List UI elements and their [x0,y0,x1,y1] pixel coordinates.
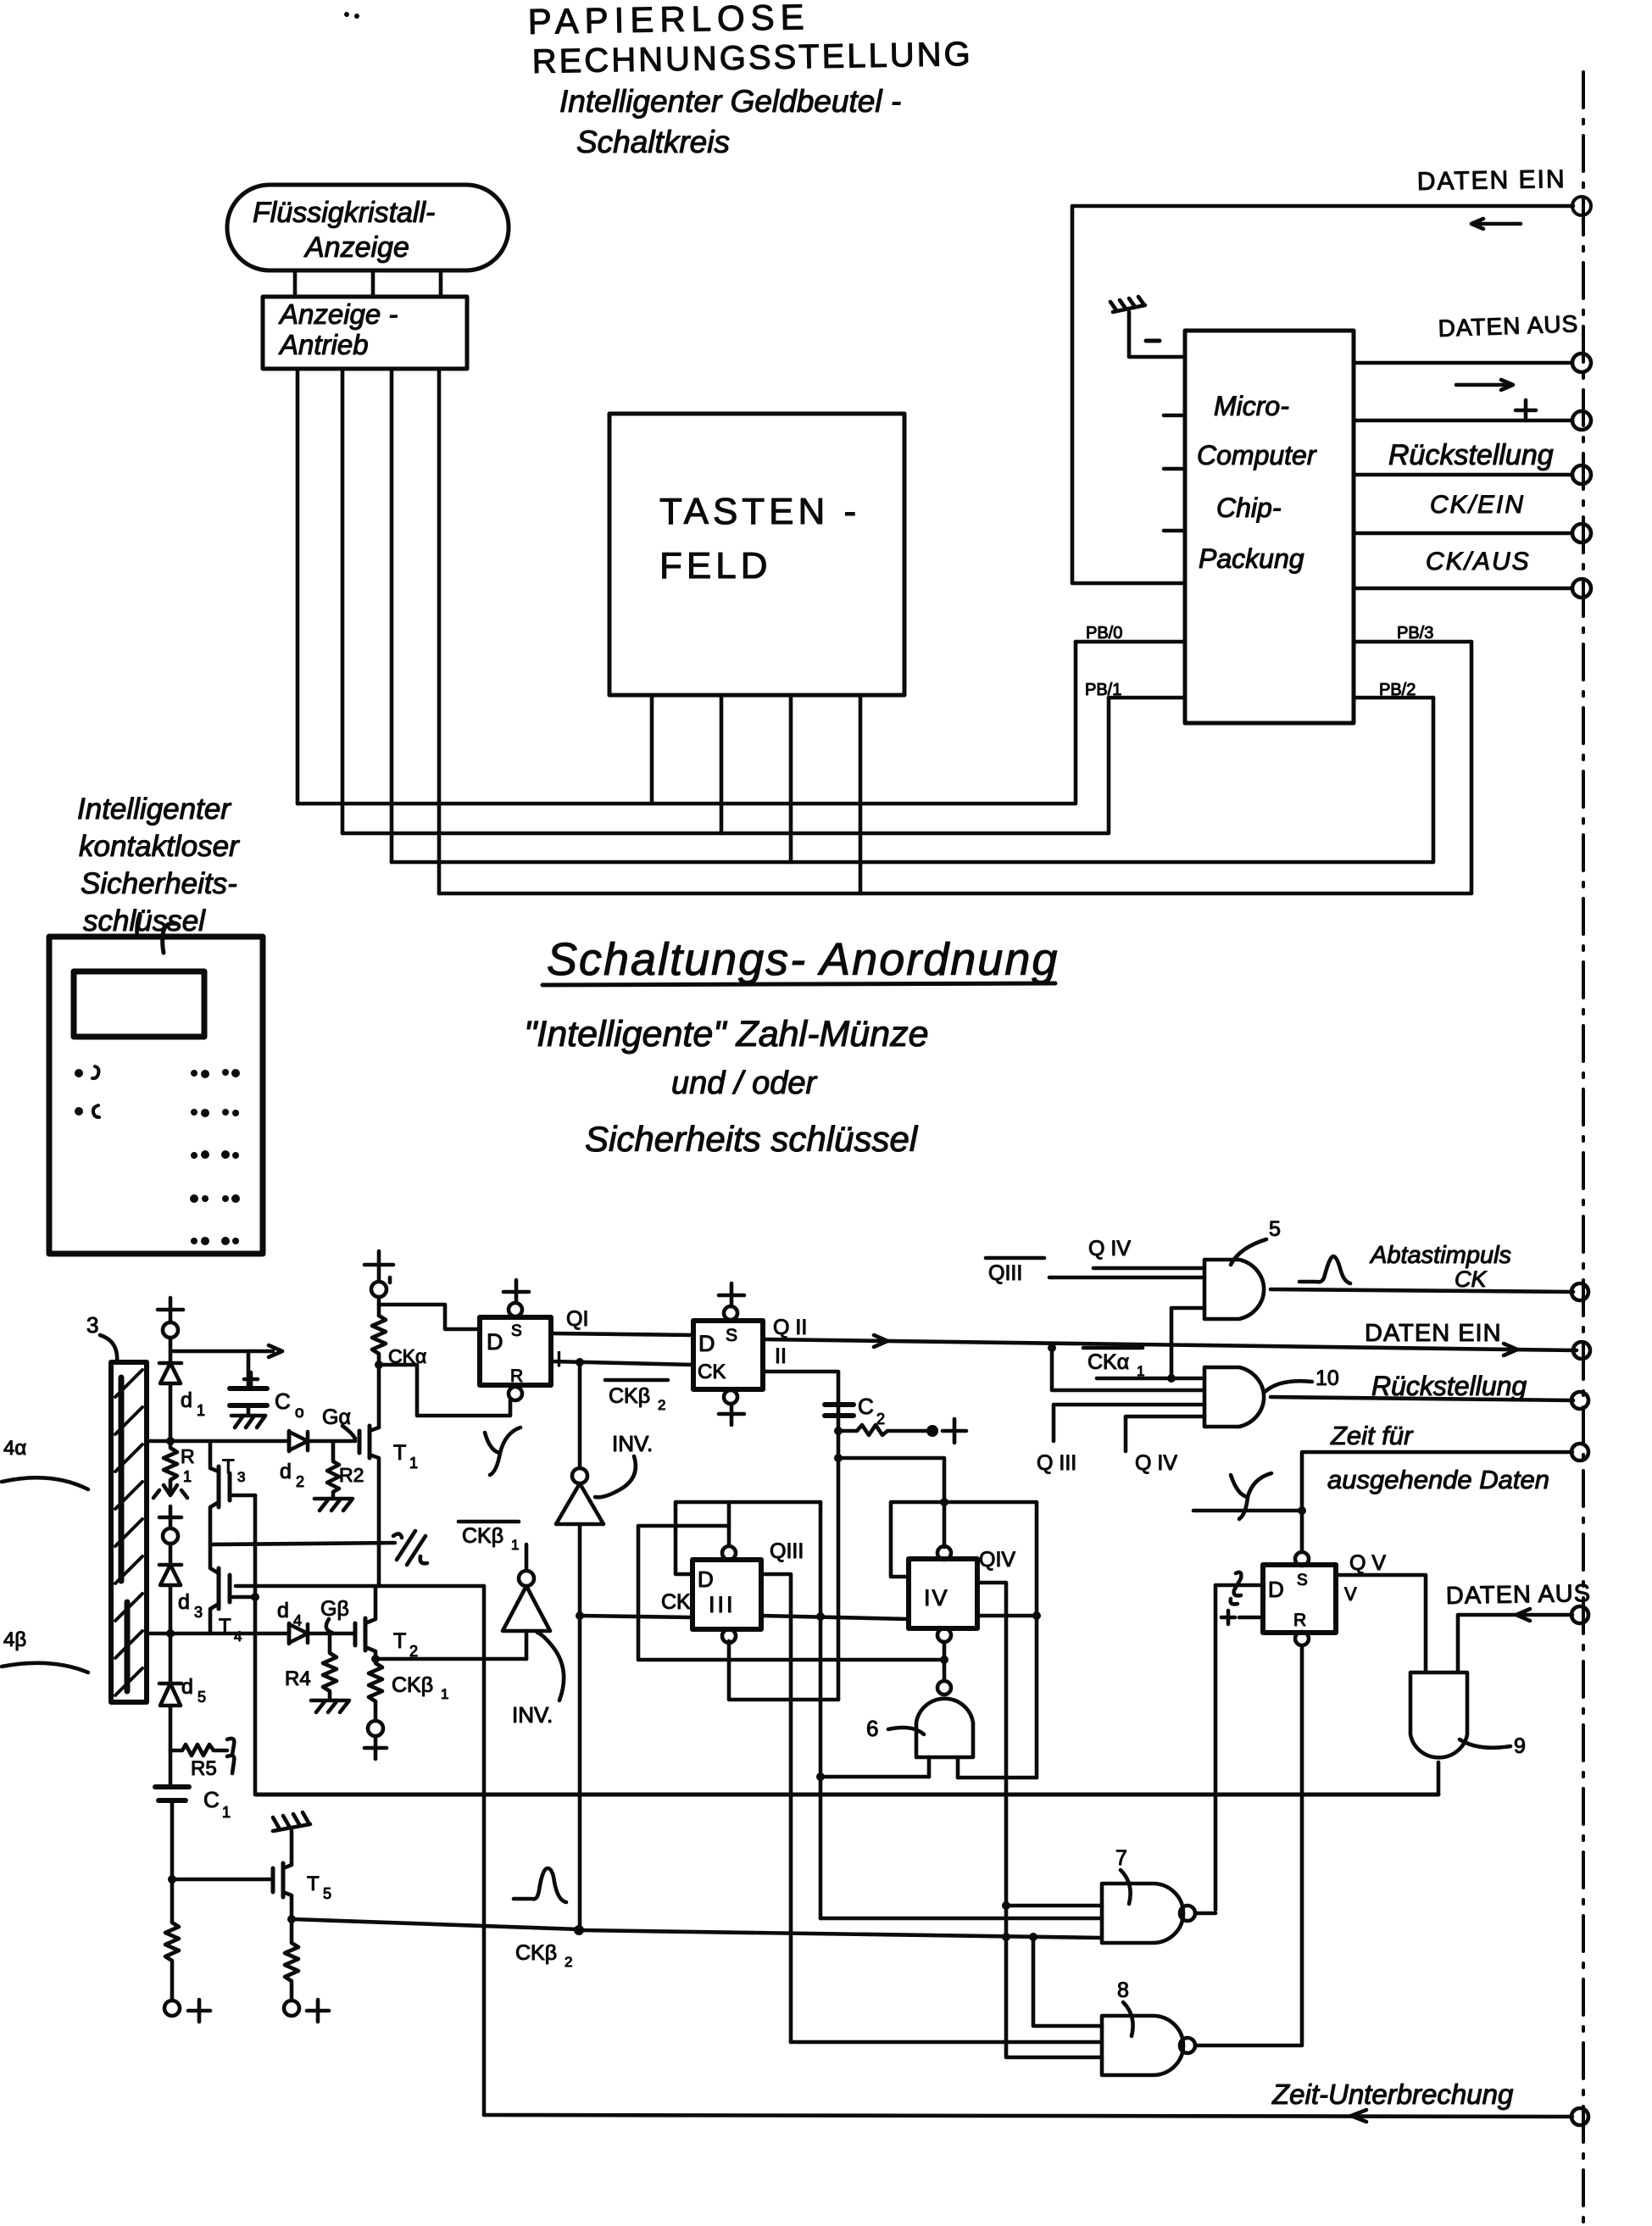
svg-text:QIII: QIII [988,1261,1022,1285]
svg-text:und / oder: und / oder [671,1066,817,1101]
svg-text:Packung: Packung [1199,543,1304,574]
svg-text:D: D [698,1331,715,1356]
svg-text:FELD: FELD [659,545,771,587]
FF III top pin terminal [722,1546,736,1560]
wire d3 to d5 [169,1633,173,1683]
card contact dots row 1 left [75,1066,99,1078]
plus below FF II [719,1404,744,1425]
svg-text:T: T [393,1441,406,1465]
svg-text:S: S [726,1326,737,1345]
svg-text:5: 5 [1269,1217,1281,1241]
svg-text:CKα: CKα [1087,1350,1129,1374]
svg-text:CKβ: CKβ [609,1384,650,1408]
stray dots top [344,12,359,19]
bus wire row 4 [439,642,1471,893]
wire NAND6 left input from Q rail [820,1775,929,1779]
wire PB/0 [1076,640,1185,644]
label Intelligenter kontaktloser Sicherheitsschluessel [77,793,240,938]
resistor CKa [372,1316,386,1365]
terminal Zeit fuer [1571,1444,1588,1461]
arrow left below DATEN EIN [1471,219,1521,229]
svg-text:INV.: INV. [512,1702,553,1728]
svg-text:5: 5 [197,1689,206,1706]
wire driver line 4 [437,369,442,893]
svg-text:o: o [295,1404,304,1422]
svg-text:1: 1 [222,1804,231,1821]
wire R5 node down to C1 [169,1750,173,1787]
FF I reset pin terminal [509,1387,522,1400]
pointer 9 to gate [1460,1739,1510,1748]
svg-text:R5: R5 [191,1757,217,1780]
arrowhead DATEN AUS [1516,1609,1530,1621]
FF I set pin terminal [509,1303,522,1316]
svg-text:Q IV: Q IV [1135,1451,1177,1475]
ground at C0 [231,1416,265,1427]
inverter INV2 bubble [519,1571,534,1586]
overline CKa1 [1083,1346,1143,1350]
terminal circle d1 column [163,1322,178,1338]
hatch marks CKb1 tap [393,1531,427,1565]
junction dot d1 column on 4a wire [166,1437,175,1445]
T3 T4 column from 4a row [210,1441,219,1472]
wire AND5 third input from CKa1 line [1171,1308,1204,1378]
label Abtastimpuls CK [1369,1242,1511,1292]
wire NAND7 output to FF V D input [1215,1585,1263,1910]
svg-text:d: d [178,1590,190,1614]
keypad column wire 1 [650,695,654,804]
LCD display ellipse Fluessigkristall-Anzeige [227,185,509,270]
FF III outer loop [676,1502,820,1574]
arrowhead on QII wire [874,1335,1517,1355]
junction dot CKb2 branch 1 [1002,1933,1010,1941]
wire CK/EIN [1354,531,1572,536]
label C2 [858,1394,885,1427]
plus sign [1516,400,1536,420]
card contact dots row 4 right [190,1194,240,1203]
CKb1 tap line with hatch [210,1543,395,1544]
svg-text:1: 1 [197,1402,205,1419]
FF II set pin terminal [724,1306,737,1320]
svg-text:D: D [1268,1577,1284,1602]
pulse symbol CKb2 [514,1868,566,1902]
svg-text:Micro-: Micro- [1214,391,1289,421]
svg-text:2: 2 [658,1397,665,1413]
branch to FF I D input [379,1305,480,1329]
svg-text:CKβ: CKβ [462,1524,503,1548]
transistor T4 [210,1568,255,1633]
diode d3 [159,1565,181,1633]
squiggle wire to plus [838,1425,926,1435]
junction dot T5 source [287,1915,296,1923]
wire CKa node to FF I R staircase [379,1365,510,1416]
junction dot d3 column on 4b wire [166,1629,175,1638]
junction dot CKb2 branch 2 [1029,1933,1037,1941]
wire Zeit fuer line [1302,1452,1572,1552]
wire QIV output [977,1614,1037,1618]
svg-text:Q III: Q III [1037,1451,1076,1475]
svg-text:Anzeige: Anzeige [303,231,409,264]
ground below R2 [314,1499,353,1511]
FF IV bottom pin terminal [937,1628,951,1642]
svg-text:C: C [203,1787,220,1812]
pointer tick from label to card [136,914,140,937]
NAND gate 8 [1102,2016,1195,2075]
FF IV top pin terminal [937,1546,951,1560]
svg-text:2: 2 [565,1954,572,1970]
terminal circle bottom left [164,2001,180,2016]
junction dot CK at INV1 column [576,1611,584,1620]
svg-text:Intelligenter: Intelligenter [77,793,231,826]
svg-text:CK/AUS: CK/AUS [1426,548,1531,576]
junction dot FF IV bottom rail [940,1656,948,1664]
dash-dot page border right [1582,72,1585,2226]
svg-text:R: R [181,1445,195,1467]
inverter INV2 triangle [503,1586,550,1631]
wire FF I out to FF II CK [551,1361,693,1365]
pointer 7 to gate [1121,1870,1131,1904]
node arrow wire rightward [170,1345,282,1357]
ground below R4 [311,1700,349,1712]
svg-text:Sicherheits schlüssel: Sicherheits schlüssel [585,1119,919,1159]
wire CK/AUS [1354,587,1572,591]
inverter INV1 bubble [572,1468,587,1483]
svg-text:Chip-: Chip- [1216,493,1281,523]
card contact dots row 2 right [191,1109,239,1117]
svg-text:CK/EIN: CK/EIN [1430,491,1525,519]
flip-flop FF III box [693,1560,761,1629]
plus above FF I [503,1280,529,1303]
arrowhead Zeit-Unterbrechung [1351,2110,1366,2122]
label Zeit fuer ausgehende Daten [1327,1421,1549,1494]
svg-text:Sicherheits-: Sicherheits- [81,867,237,900]
svg-text:DATEN AUS: DATEN AUS [1446,1580,1592,1610]
svg-text:C: C [275,1388,291,1414]
svg-text:d: d [181,1675,193,1699]
arrow right [1456,380,1513,390]
svg-text:Zeit für: Zeit für [1330,1421,1414,1450]
junction dot CKb2bar node [576,1358,584,1366]
svg-text:Gα: Gα [322,1405,351,1429]
pointer 4b to bar [2,1663,88,1672]
pointer INV2 label [537,1633,564,1700]
wire PB/2 [1354,696,1433,700]
svg-text:CK: CK [698,1361,726,1383]
minus label at chip ground [1146,339,1160,343]
keypad column wire 2 [720,695,724,833]
junction dot C1 node T5 gate [168,1875,176,1884]
pointer Ga to T1 gate [342,1426,355,1439]
diode d4 [289,1623,355,1644]
FF III bottom pin terminal [722,1629,736,1643]
resistor below C1 node [165,1879,179,2001]
inverter INV2 stub [525,1544,529,1571]
plus bottom left [188,2000,210,2022]
NAND gate 6 pointing up [916,1681,973,1778]
T2 drain rail [236,1584,484,1589]
junction dot CK at Q rail [816,1612,825,1621]
svg-text:1: 1 [409,1455,418,1472]
plus at C2 squiggle [943,1419,966,1443]
wire FF IV bottom pin to NAND6 [943,1642,947,1681]
keypad box TASTEN-FELD [609,414,904,695]
wire driver line 3 [390,369,394,862]
terminal Rueckstellung [1572,465,1591,484]
pointer 3 to bar [100,1335,117,1362]
flip-flop FF II box [693,1321,763,1389]
wire PB/3 [1354,640,1471,644]
junction dot FF IV set line on loop [940,1498,948,1506]
wire FF III bottom link [729,1641,838,1700]
svg-text:4: 4 [293,1612,302,1629]
wires ellipse to driver box [295,270,441,297]
svg-text:Schaltkreis: Schaltkreis [576,125,730,159]
svg-text:"Intelligente" Zahl-Münze: "Intelligente" Zahl-Münze [524,1014,929,1055]
plus supply top of d1 column [158,1298,183,1322]
wire to d3 [169,1544,173,1565]
svg-text:Intelligenter Geldbeutel -: Intelligenter Geldbeutel - [559,84,901,119]
terminal DATEN EIN [1572,197,1591,215]
flip-flop FF I box [480,1317,551,1386]
svg-text:Abtastimpuls: Abtastimpuls [1369,1242,1511,1269]
svg-text:CKβ: CKβ [515,1941,557,1965]
wire INV2 to T2 source line [525,1631,529,1659]
svg-text:DATEN EIN: DATEN EIN [1365,1320,1502,1347]
junction dot QIV [1032,1611,1041,1620]
trimmer hooks at R5 [227,1739,234,1773]
wire INV1 down to CKb2 node [578,1524,582,1929]
feedback line AND9 output to gate bus [256,1793,1438,1797]
wire Zeit-Unterbrechung [484,2115,1572,2117]
resistor R2 [327,1441,339,1497]
svg-text:schlüssel: schlüssel [83,904,206,938]
svg-text:Gβ: Gβ [320,1597,349,1621]
svg-text:S: S [511,1322,522,1340]
FF III right output to QIII rail [761,1574,791,2042]
svg-text:D: D [487,1329,503,1355]
resistor R5 horizontal [170,1745,227,1756]
FF III inner loop [638,1526,944,1660]
wire PB/1 [1109,696,1185,700]
FF IV second output to NAND7 [977,1583,1102,2057]
junction dot FF V column [1298,1506,1306,1515]
pulse check symbol near FF I [485,1427,520,1475]
svg-text:T: T [222,1455,235,1478]
wire T5 gate [172,1878,273,1882]
svg-text:3: 3 [237,1469,245,1485]
svg-text:9: 9 [1514,1734,1526,1758]
svg-text:1: 1 [441,1686,448,1702]
svg-text:CKβ: CKβ [392,1673,433,1697]
CKb2 node junction dot [574,1925,584,1935]
svg-text:1: 1 [183,1468,192,1485]
terminal circle above d3 [163,1528,178,1544]
svg-text:II: II [775,1344,787,1368]
svg-text:PAPIERLOSE: PAPIERLOSE [527,0,810,42]
inverter INV1 triangle [556,1483,604,1524]
overline mark [605,1378,668,1383]
NAND gate 7 [1102,1884,1195,1943]
svg-text:T: T [393,1629,406,1653]
AND gate 9 pointing down [1410,1672,1467,1795]
terminal CK/AUS [1572,579,1591,598]
terminal circle below T2 [368,1721,383,1736]
CK wire into FF III [580,1616,693,1617]
pointer 6 to gate [888,1728,924,1734]
svg-text:4β: 4β [3,1628,26,1651]
svg-text:III: III [709,1592,736,1617]
keypad column wire 4 [859,695,863,893]
svg-text:QIV: QIV [979,1548,1015,1572]
CK wire FF III to FF IV [761,1616,909,1619]
svg-text:Zeit-Unterbrechung: Zeit-Unterbrechung [1271,2079,1514,2110]
FF V bottom pin terminal [1295,1632,1309,1645]
label CKb2 [515,1941,572,1970]
wire FF II lower out to C2 [763,1372,838,1700]
terminal CK/EIN [1572,524,1591,543]
label CKb2 overline [609,1384,665,1413]
wire DATEN AUS to AND9 [1458,1615,1572,1672]
svg-text:QI: QI [566,1307,588,1331]
overline for CKb1 tap label [459,1520,519,1524]
vertical drain rail to Zeit line [482,1586,487,2115]
FF IV loop [891,1502,1037,1778]
bus wire row 3 [392,698,1433,862]
svg-text:RECHNUNGSSTELLUNG: RECHNUNGSSTELLUNG [531,36,973,81]
svg-text:3: 3 [86,1312,98,1338]
svg-text:DATEN EIN: DATEN EIN [1417,165,1566,196]
svg-text:Antrieb: Antrieb [278,329,369,360]
wire AND10 output Rueckstellung [1271,1397,1573,1400]
svg-text:Computer: Computer [1197,440,1317,470]
wire NAND7 input A [1006,1904,1102,1908]
pointer 8 to gate [1123,2002,1133,2036]
wire 4b row [147,1632,289,1636]
svg-text:Q II: Q II [773,1316,807,1339]
svg-text:4α: 4α [3,1437,26,1460]
wire AND10 input 3 QIII stub [1054,1405,1204,1441]
ground symbol at chip [1110,297,1185,357]
FF V top pin terminal [1295,1552,1309,1566]
wire C2 node to FF IV set pin [838,1458,944,1547]
wire AND5 input QIV [1093,1266,1204,1271]
svg-text:CK: CK [1455,1266,1487,1292]
wire QV to AND9 [1336,1575,1426,1672]
svg-text:TASTEN -: TASTEN - [659,491,860,532]
svg-text:d: d [181,1388,192,1412]
wire down to inverter INV1 [578,1362,582,1468]
diode d5 [159,1683,181,1750]
wire DATEN AUS [1354,361,1572,365]
wire AND5 input QIIIbar [1049,1276,1204,1280]
wire Rueckstellung [1354,473,1572,477]
svg-text:Q V: Q V [1349,1551,1386,1575]
label CKb1 overline (tap) [462,1524,519,1553]
gate bus T3 T4 vertical [253,1495,258,1795]
diode d2 [289,1431,355,1451]
plus below T5 [307,2000,329,2022]
FF II reset pin terminal [724,1390,737,1404]
svg-text:1: 1 [511,1537,519,1553]
terminal Rueckstellung lower [1571,1392,1588,1409]
svg-text:R4: R4 [285,1667,311,1690]
svg-text:DATEN AUS: DATEN AUS [1438,310,1579,342]
svg-text:CK: CK [661,1590,691,1614]
wire plus supply [1354,419,1572,423]
transistor T3 [210,1466,255,1573]
micro-computer chip box [1185,331,1354,723]
terminal DATEN EIN lower [1573,1342,1590,1359]
capacitor C0 [230,1351,267,1414]
label CKb1 [392,1673,448,1702]
ground above T5 [273,1812,310,1831]
svg-text:kontaktloser: kontaktloser [79,830,240,863]
svg-text:4: 4 [234,1628,242,1644]
terminal DATEN AUS [1572,353,1591,372]
wire supply to CKa resistor [377,1297,381,1316]
terminal plus supply [1572,411,1591,430]
junction dot below C2 [834,1427,843,1435]
svg-text:d: d [277,1599,289,1622]
junction dot C2 to FF IV set [834,1454,843,1462]
wire T2 source to inverter 2 [375,1657,526,1661]
wire Q rail to NAND7 input B [820,1917,1102,1921]
ground arrow below R1 [153,1485,187,1498]
svg-text:V: V [1344,1583,1357,1605]
card display window [74,971,204,1037]
AND gate 5 [1204,1260,1264,1319]
flip-flop FF V box [1263,1565,1336,1633]
svg-text:R: R [510,1366,523,1386]
plus above FF II [719,1283,744,1306]
wire driver line 2 [341,369,345,833]
bus wire row 1 [298,642,1076,804]
svg-text:T: T [307,1873,320,1895]
chip left pin stubs [1164,415,1185,531]
junction dot NAND7 input A branch [1002,1901,1010,1910]
resistor CKb1 below T2 [369,1659,382,1721]
security key card outline [49,937,263,1254]
AND gate 10 [1204,1367,1264,1427]
svg-text:ausgehende Daten: ausgehende Daten [1327,1465,1549,1494]
hatch marks on FF V D wire [1231,1572,1242,1605]
pointer INV1 label [595,1456,636,1497]
wire terminal to junction [169,1338,173,1363]
svg-text:d: d [280,1460,292,1483]
svg-text:7: 7 [1115,1846,1127,1870]
flip-flop FF IV box [909,1559,977,1628]
card contact dots row 2 left [75,1105,99,1117]
card contact dots row 1 right [191,1069,240,1078]
resistor R1 [164,1441,177,1485]
card hook mark [163,923,177,953]
title text PAPIERLOSE RECHNUNGSSTELLUNG [527,0,973,159]
wire NAND8 output to FF V reset [1195,1645,1302,2045]
wire driver line 1 [296,369,300,804]
wire NAND7 output up [1195,1912,1215,1916]
svg-text:D: D [698,1567,714,1592]
junction dot T4 gate [251,1593,259,1601]
svg-text:Rückstellung: Rückstellung [1371,1371,1527,1401]
resistor below T5 [285,1919,298,2001]
terminal circle below T5 [284,2001,299,2016]
svg-text:10: 10 [1315,1366,1339,1390]
svg-text:R: R [1293,1611,1306,1630]
junction dot Q rail NAND6 [816,1772,825,1781]
wire AND10 input 4 QIV stub [1126,1416,1204,1451]
stub wire to FF V column [1193,1509,1302,1513]
svg-text:5: 5 [323,1885,331,1902]
bus wire row 2 [342,698,1109,833]
